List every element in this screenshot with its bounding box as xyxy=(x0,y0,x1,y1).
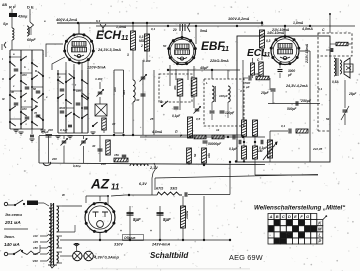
svg-text:+: + xyxy=(150,229,152,233)
svg-text:50: 50 xyxy=(163,44,167,48)
svg-text:B: B xyxy=(276,214,279,219)
svg-text:L: L xyxy=(319,233,322,238)
svg-text:50: 50 xyxy=(33,87,37,91)
svg-text:9,60µ: 9,60µ xyxy=(73,164,81,168)
svg-text:150: 150 xyxy=(33,246,38,250)
svg-text:2,1V: 2,1V xyxy=(149,166,158,170)
svg-text:0,1: 0,1 xyxy=(281,124,286,128)
svg-text:d: d xyxy=(24,99,26,103)
svg-text:AB: AB xyxy=(2,3,7,7)
svg-text:6,3: 6,3 xyxy=(96,19,101,23)
svg-text:Schaltbild: Schaltbild xyxy=(150,251,189,260)
svg-text:60pF: 60pF xyxy=(27,38,36,42)
svg-text:Wellenschalterstellung „Mittel: Wellenschalterstellung „Mittel“ xyxy=(254,205,346,212)
svg-text:6,3V: 6,3V xyxy=(139,182,147,186)
svg-text:G: G xyxy=(306,214,309,219)
svg-text:AEG 69W: AEG 69W xyxy=(229,253,263,262)
svg-text:30: 30 xyxy=(136,98,140,102)
svg-text:3000: 3000 xyxy=(59,106,66,110)
svg-text:P: P xyxy=(318,239,321,244)
svg-text:1k: 1k xyxy=(216,128,220,132)
svg-text:Эл.сети: Эл.сети xyxy=(5,212,22,217)
svg-text:D: D xyxy=(288,214,291,219)
svg-text:11: 11 xyxy=(222,44,229,53)
svg-text:0,5: 0,5 xyxy=(196,117,201,121)
svg-text:µF: µF xyxy=(245,85,250,89)
svg-text:30k: 30k xyxy=(173,85,177,90)
svg-text:40: 40 xyxy=(91,144,96,148)
svg-text:43mµ: 43mµ xyxy=(17,15,27,19)
svg-text:M: M xyxy=(318,227,322,232)
svg-text:110: 110 xyxy=(33,234,38,238)
svg-text:4,8mA: 4,8mA xyxy=(301,27,313,31)
svg-text:5k: 5k xyxy=(326,117,330,121)
svg-text:500µF: 500µF xyxy=(287,107,297,111)
svg-text:E: E xyxy=(294,214,297,219)
svg-text:25µF: 25µF xyxy=(260,91,270,95)
svg-text:400V-4,2mA: 400V-4,2mA xyxy=(55,18,78,22)
svg-text:50000µF: 50000µF xyxy=(208,142,222,146)
svg-text:20: 20 xyxy=(172,28,177,32)
svg-text:100V-8,2mA: 100V-8,2mA xyxy=(228,17,250,21)
svg-text:+: + xyxy=(120,229,122,233)
svg-text:40: 40 xyxy=(10,90,15,94)
svg-text:0,1: 0,1 xyxy=(318,87,323,91)
svg-text:14V-10mA: 14V-10mA xyxy=(267,31,285,35)
svg-text:15k: 15k xyxy=(114,153,119,157)
svg-text:AZ: AZ xyxy=(90,177,110,192)
svg-text:70: 70 xyxy=(34,111,38,115)
svg-text:4,3V/ 0,3Amp: 4,3V/ 0,3Amp xyxy=(93,255,119,260)
svg-text:Sp: Sp xyxy=(3,22,8,26)
svg-text:8µF: 8µF xyxy=(133,217,141,222)
svg-text:3: 3 xyxy=(127,53,129,57)
svg-text:Обрыв: Обрыв xyxy=(124,236,135,240)
svg-text:200: 200 xyxy=(51,157,57,161)
svg-text:1,8mA: 1,8mA xyxy=(293,21,304,25)
svg-text:ECH: ECH xyxy=(96,28,121,42)
svg-text:67Ω: 67Ω xyxy=(156,187,163,191)
svg-text:4,8mA: 4,8mA xyxy=(151,130,163,134)
svg-text:22kΩ-5mA: 22kΩ-5mA xyxy=(209,59,229,63)
svg-text:MΩ: MΩ xyxy=(139,39,145,43)
svg-text:201 мА: 201 мА xyxy=(4,220,21,225)
svg-text:310V: 310V xyxy=(114,243,123,247)
svg-text:465: 465 xyxy=(122,90,126,96)
svg-text:213V-18mA: 213V-18mA xyxy=(305,43,309,64)
svg-text:11: 11 xyxy=(121,33,128,42)
svg-text:200: 200 xyxy=(100,162,106,166)
svg-text:0,3: 0,3 xyxy=(266,39,271,43)
svg-text:x: x xyxy=(45,95,48,99)
svg-text:2x0,05: 2x0,05 xyxy=(312,147,323,151)
svg-text:12: 12 xyxy=(112,122,116,126)
svg-text:2: 2 xyxy=(140,44,143,48)
svg-text:25: 25 xyxy=(149,117,154,121)
svg-text:0,5A: 0,5A xyxy=(332,80,339,84)
svg-text:125: 125 xyxy=(76,89,81,93)
svg-text:0,1µF: 0,1µF xyxy=(60,128,68,132)
svg-text:II: II xyxy=(2,77,4,81)
svg-text:L: L xyxy=(206,81,208,85)
svg-text:33Ω: 33Ω xyxy=(170,187,177,191)
svg-text:III: III xyxy=(2,97,5,101)
svg-text:100pF: 100pF xyxy=(219,94,228,98)
svg-text:24,3V-4,2mA: 24,3V-4,2mA xyxy=(285,84,308,88)
svg-text:b: b xyxy=(24,65,26,69)
svg-text:140 мА: 140 мА xyxy=(4,242,20,247)
svg-text:A: A xyxy=(269,214,273,219)
svg-text:D E: D E xyxy=(27,5,34,10)
svg-text:5mA: 5mA xyxy=(200,29,208,33)
svg-text:24,3V-3,3mA: 24,3V-3,3mA xyxy=(97,47,121,52)
svg-text:140Ω: 140Ω xyxy=(185,210,189,219)
svg-text:11: 11 xyxy=(264,52,271,59)
svg-text:100: 100 xyxy=(22,107,27,111)
svg-text:100: 100 xyxy=(22,73,27,77)
svg-text:100: 100 xyxy=(113,87,117,92)
svg-text:25µF: 25µF xyxy=(348,92,357,96)
svg-text:10k: 10k xyxy=(255,72,260,76)
svg-text:243V-6mA: 243V-6mA xyxy=(151,243,170,247)
svg-text:125: 125 xyxy=(33,240,38,244)
svg-text:0,1: 0,1 xyxy=(151,27,156,31)
svg-text:0,1µF: 0,1µF xyxy=(41,130,49,134)
svg-text:8µF: 8µF xyxy=(163,217,171,222)
svg-text:C: C xyxy=(282,214,285,219)
svg-text:Экон.: Экон. xyxy=(4,234,15,239)
svg-text:120pF: 120pF xyxy=(225,111,235,115)
svg-text:5k: 5k xyxy=(193,153,197,157)
svg-text:45µF: 45µF xyxy=(199,66,209,70)
svg-text:0,1µF: 0,1µF xyxy=(172,114,181,118)
svg-text:0,1µF: 0,1µF xyxy=(229,147,238,151)
